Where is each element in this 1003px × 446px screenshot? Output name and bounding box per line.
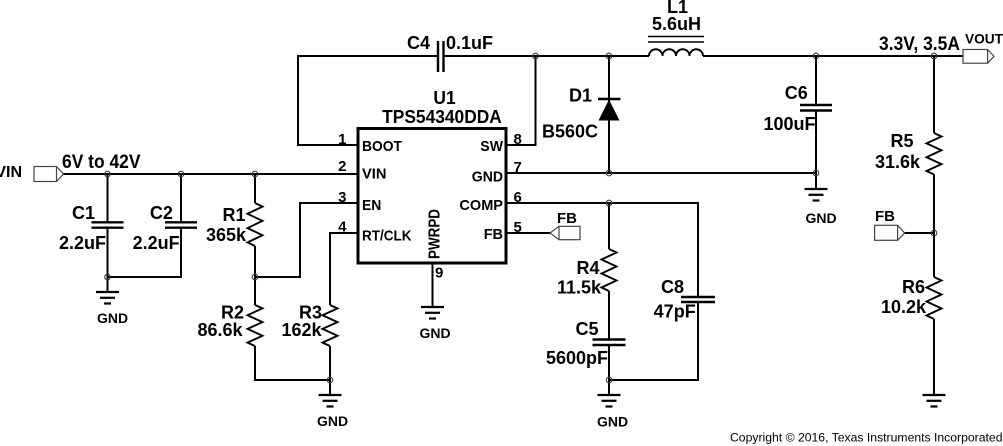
svg-text:100uF: 100uF	[763, 114, 815, 134]
svg-text:9: 9	[435, 265, 443, 282]
svg-text:2.2uF: 2.2uF	[59, 233, 106, 253]
svg-text:3: 3	[338, 189, 346, 206]
svg-text:GND: GND	[97, 310, 128, 326]
svg-text:R4: R4	[576, 258, 599, 278]
svg-text:R6: R6	[902, 277, 925, 297]
svg-text:3.3V, 3.5A: 3.3V, 3.5A	[879, 34, 960, 55]
svg-text:RT/CLK: RT/CLK	[362, 228, 412, 245]
svg-text:GND: GND	[419, 325, 450, 341]
svg-text:Copyright © 2016, Texas Instru: Copyright © 2016, Texas Instruments Inco…	[730, 431, 1003, 445]
svg-text:C8: C8	[661, 277, 684, 297]
svg-text:SW: SW	[480, 138, 503, 155]
svg-text:C2: C2	[150, 203, 173, 223]
svg-text:COMP: COMP	[459, 197, 503, 214]
svg-text:11.5k: 11.5k	[557, 278, 602, 298]
svg-text:6V to 42V: 6V to 42V	[62, 151, 141, 173]
svg-text:BOOT: BOOT	[362, 138, 402, 155]
svg-text:VOUT: VOUT	[965, 31, 1003, 47]
svg-text:5: 5	[514, 219, 522, 236]
svg-text:86.6k: 86.6k	[197, 320, 243, 340]
svg-text:5.6uH: 5.6uH	[652, 14, 701, 34]
svg-text:2.2uF: 2.2uF	[133, 233, 180, 253]
svg-text:GND: GND	[317, 413, 348, 429]
svg-text:0.1uF: 0.1uF	[446, 33, 493, 53]
svg-text:R1: R1	[222, 205, 245, 225]
svg-text:D1: D1	[569, 86, 592, 106]
svg-text:31.6k: 31.6k	[875, 152, 921, 172]
svg-text:FB: FB	[557, 210, 577, 227]
svg-text:R5: R5	[890, 131, 913, 151]
svg-text:VIN: VIN	[0, 164, 22, 181]
svg-text:GND: GND	[597, 414, 628, 430]
svg-text:GND: GND	[805, 210, 836, 226]
svg-text:C1: C1	[72, 203, 95, 223]
svg-text:10.2k: 10.2k	[881, 297, 927, 317]
svg-text:2: 2	[338, 158, 346, 175]
svg-text:162k: 162k	[281, 320, 322, 340]
svg-text:8: 8	[514, 131, 522, 148]
svg-text:47pF: 47pF	[654, 302, 696, 322]
svg-text:EN: EN	[362, 197, 381, 214]
svg-text:C6: C6	[785, 83, 808, 103]
svg-text:4: 4	[338, 219, 347, 236]
svg-text:FB: FB	[484, 226, 503, 243]
svg-text:C4: C4	[407, 33, 430, 53]
svg-text:FB: FB	[875, 208, 895, 225]
svg-text:U1: U1	[433, 88, 455, 108]
svg-text:B560C: B560C	[542, 122, 598, 142]
svg-text:1: 1	[338, 131, 346, 148]
svg-text:6: 6	[514, 189, 522, 206]
svg-text:GND: GND	[472, 169, 503, 186]
svg-text:VIN: VIN	[362, 166, 387, 183]
svg-text:5600pF: 5600pF	[546, 348, 608, 368]
svg-text:7: 7	[514, 159, 522, 176]
svg-text:TPS54340DDA: TPS54340DDA	[382, 107, 502, 127]
svg-text:C5: C5	[575, 319, 598, 339]
svg-text:PWRPD: PWRPD	[427, 209, 444, 259]
svg-text:365k: 365k	[206, 225, 247, 245]
